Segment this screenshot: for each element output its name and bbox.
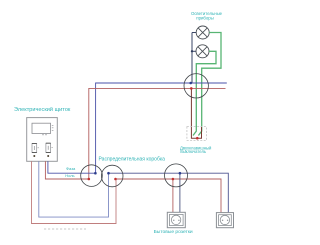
node: A red [88, 178, 91, 181]
breaker 2 [46, 143, 53, 157]
wire: red pair2 panel to circle A [45, 161, 88, 179]
wire: blue drop to socket 1 [179, 173, 181, 212]
svg-text:Бытовые розетки: Бытовые розетки [154, 229, 193, 235]
svg-text:Ноль: Ноль [65, 173, 74, 178]
svg-text:Распределительная коробка: Распределительная коробка [99, 156, 166, 162]
node: lamp branch junction [191, 50, 193, 52]
node: B blue [107, 172, 110, 175]
socket S1 [167, 212, 185, 227]
wire: blue top run (circle A to junction T and stub) [96, 83, 227, 173]
lamp L1 [196, 26, 209, 39]
switch body (dashed) [187, 127, 207, 141]
wire: neutral from lamps to junction T (dark navy) [192, 33, 196, 84]
junction box T [184, 74, 208, 98]
node: C blue [179, 172, 182, 175]
wire: green switched line 1 (lamp1 - switch) [198, 33, 221, 136]
wire: red top run (circle A to junction T and stub) [89, 88, 226, 179]
node: switch terminal [196, 137, 199, 140]
junction box A [81, 165, 103, 187]
junction box C [165, 164, 188, 187]
wire: red pair1 panel to U to circle B [32, 161, 117, 223]
wire: blue run circle B to socket 2 [109, 173, 229, 212]
meter display [32, 123, 51, 133]
socket S2 [216, 213, 233, 228]
node: B red [114, 178, 117, 181]
lamp L2 [196, 45, 209, 58]
node: T red [190, 87, 193, 90]
svg-text:Электрический щиток: Электрический щиток [14, 106, 71, 113]
wire: green switched line 2 (lamp2 - switch) [193, 51, 216, 135]
wire: blue pair2 panel to circle A [48, 161, 96, 173]
panel box [27, 118, 58, 162]
junction box B [101, 165, 123, 187]
wire: red drop to socket 1 [172, 179, 174, 212]
breaker 1 [32, 143, 39, 157]
dashed marker line bottom [44, 228, 86, 230]
wire: blue pair1 panel to U to circle B [39, 161, 109, 217]
meter side marks [42, 125, 53, 135]
wire: red run circle B to socket 2 [116, 179, 222, 213]
svg-text:выключатель: выключатель [180, 149, 207, 154]
wire: red phase junction T to switch (dark red) [191, 88, 201, 138]
node: T blue [189, 82, 192, 85]
label: Осветительные приборы [191, 11, 223, 20]
svg-text:приборы: приборы [196, 15, 213, 20]
svg-text:Фаза: Фаза [66, 166, 76, 171]
label: Двухклавишный выключатель [180, 146, 212, 155]
node: C red [172, 178, 175, 181]
node: A blue [94, 172, 97, 175]
